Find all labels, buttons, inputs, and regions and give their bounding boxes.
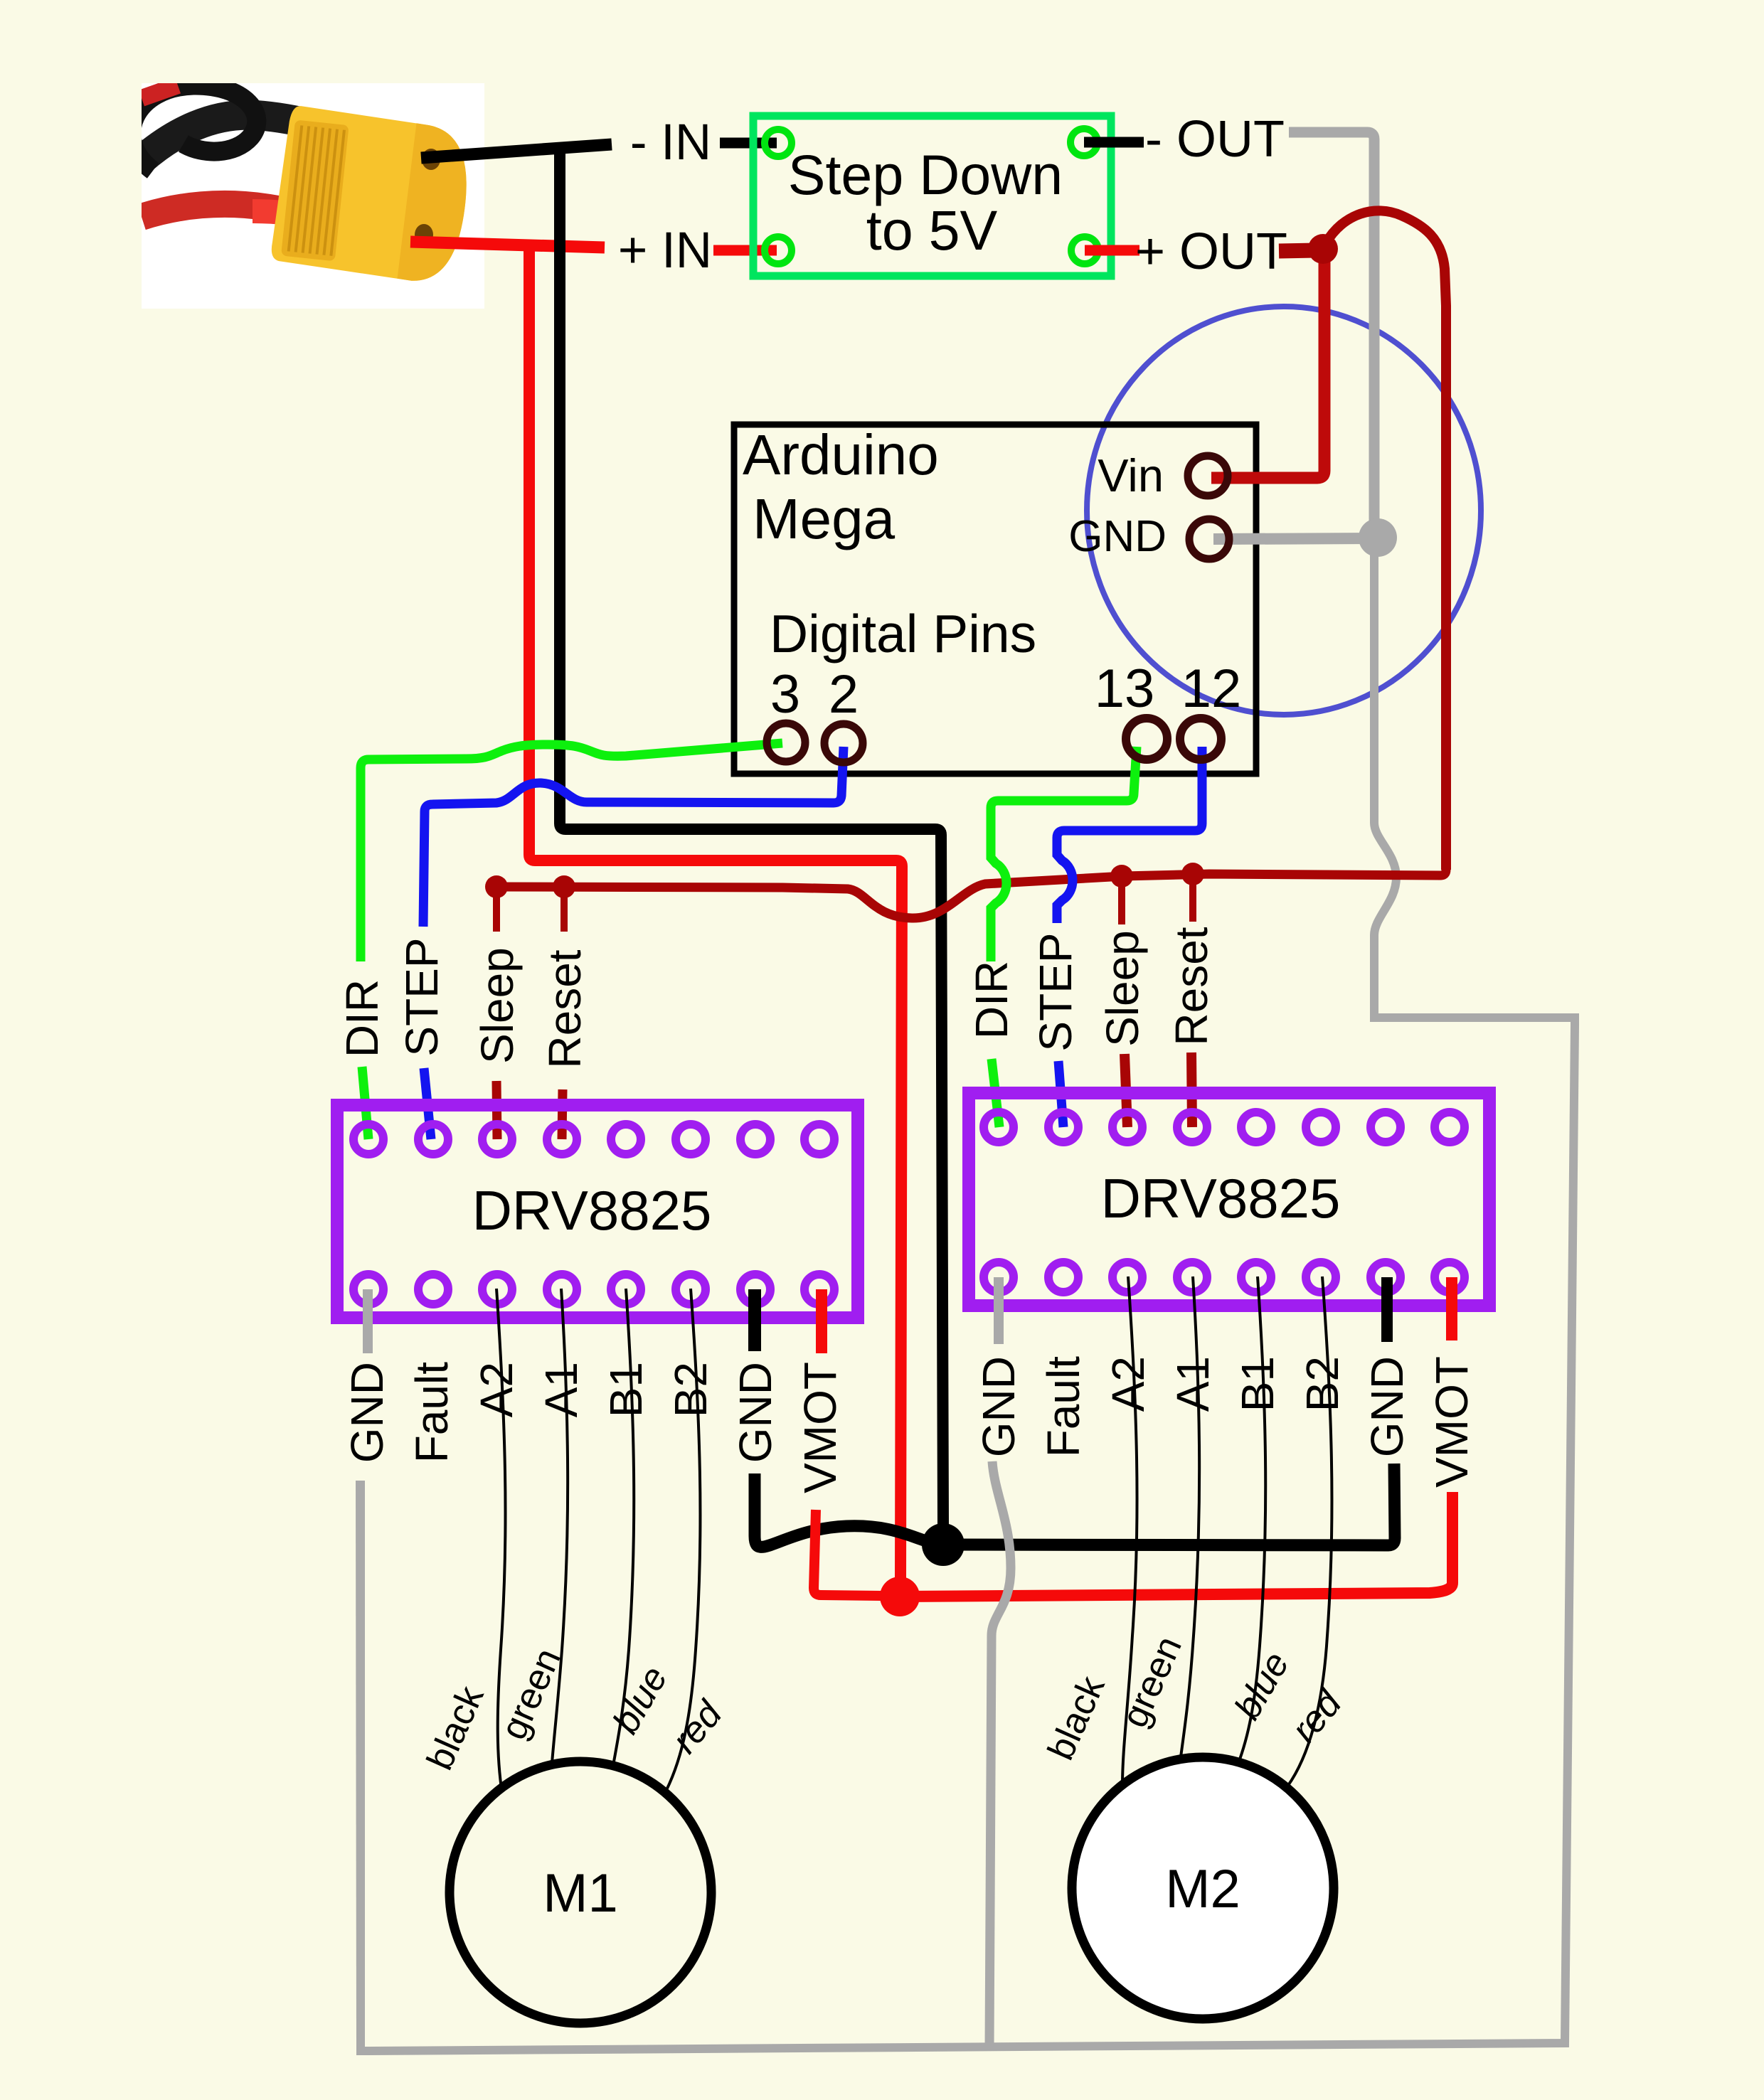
svg-text:GND: GND [730, 1362, 781, 1463]
svg-text:Step Down: Step Down [788, 143, 1063, 206]
svg-text:A1: A1 [536, 1362, 587, 1417]
svg-text:Arduino: Arduino [743, 423, 939, 486]
svg-text:VMOT: VMOT [1426, 1356, 1477, 1488]
dark red left reset branch [560, 887, 568, 932]
black bus node to right GND [943, 1464, 1395, 1545]
gray GND stub left board [363, 1289, 373, 1353]
motor wire A2 to M2 [1122, 1276, 1137, 1785]
blue STEP stub left [424, 1068, 431, 1139]
svg-text:blue: blue [605, 1659, 676, 1740]
svg-text:B2: B2 [665, 1362, 716, 1417]
svg-text:A1: A1 [1167, 1356, 1218, 1412]
wire -OUT stub [1084, 137, 1144, 148]
red bus node to right VMOT [900, 1492, 1452, 1597]
step-down pin -IN [765, 129, 792, 156]
dark red left sleep branch [493, 887, 500, 932]
svg-text:+ OUT: + OUT [1135, 223, 1287, 280]
svg-text:Sleep: Sleep [472, 947, 523, 1064]
motor wire B2 to M1 [666, 1289, 700, 1790]
gray GND wire from -OUT down right frame [1289, 132, 1374, 526]
svg-text:Reset: Reset [1166, 927, 1217, 1045]
red power bus +IN down and across [529, 245, 902, 1579]
right board top pin row [984, 1112, 1465, 1142]
blue wire D2 to left STEP [423, 747, 844, 927]
red VMOT wire left to node [814, 1510, 882, 1596]
svg-text:GND: GND [1361, 1356, 1413, 1457]
left board top pin row [354, 1124, 834, 1154]
junction node +OUT [1308, 234, 1338, 264]
gray GND wire left below label [360, 1481, 361, 2042]
junction node right sleep [1110, 865, 1133, 888]
junction node left reset [553, 875, 575, 898]
dark red right reset branch [1189, 874, 1196, 922]
motor wire A2 to M1 [496, 1289, 506, 1793]
svg-text:B1: B1 [600, 1362, 652, 1417]
svg-text:Fault: Fault [406, 1362, 457, 1464]
svg-text:A2: A2 [1102, 1356, 1154, 1412]
motor M1 [450, 1761, 711, 2023]
dark red sleep/reset rail [496, 870, 1446, 918]
motor wire A1 to M2 [1180, 1276, 1199, 1762]
junction node red [880, 1577, 920, 1616]
blue highlight circle around Vin/GND [1087, 307, 1481, 715]
svg-text:B1: B1 [1232, 1356, 1283, 1412]
svg-text:B2: B2 [1297, 1356, 1348, 1412]
junction node right reset [1181, 863, 1204, 885]
svg-text:green: green [1114, 1631, 1190, 1734]
left board bottom pin row [354, 1274, 834, 1304]
svg-text:Sleep: Sleep [1097, 930, 1148, 1047]
Arduino pin 12 [1180, 718, 1221, 759]
svg-text:M1: M1 [543, 1863, 618, 1924]
Arduino pin 3 [767, 723, 805, 762]
svg-text:12: 12 [1181, 659, 1242, 719]
dark red +OUT arc over to right rail [1326, 210, 1446, 870]
gray GND wire right below label [989, 1461, 1011, 2048]
svg-text:Fault: Fault [1038, 1356, 1089, 1458]
green wire D3 to left DIR [361, 743, 782, 961]
right board bottom pin row [984, 1262, 1465, 1292]
svg-text:13: 13 [1095, 659, 1155, 719]
svg-text:- IN: - IN [630, 114, 711, 171]
green DIR stub right [992, 1059, 999, 1127]
svg-text:to 5V: to 5V [866, 198, 998, 262]
step-down pin -OUT [1070, 129, 1098, 156]
svg-text:STEP: STEP [1030, 932, 1081, 1051]
svg-text:- OUT: - OUT [1145, 111, 1285, 168]
red VMOT stub right board [1446, 1277, 1457, 1341]
junction node black [922, 1523, 965, 1566]
green DIR stub left [362, 1067, 368, 1139]
Arduino Mega board [734, 423, 1256, 774]
gray Arduino GND stub to node [1213, 538, 1378, 539]
svg-text:Vin: Vin [1098, 449, 1164, 501]
svg-text:blue: blue [1227, 1645, 1297, 1726]
svg-text:black: black [1040, 1670, 1113, 1766]
dark red +OUT to Vin wire [1279, 250, 1316, 251]
svg-text:DRV8825: DRV8825 [1101, 1167, 1341, 1230]
red VMOT stub left board [816, 1289, 827, 1353]
wire +OUT stub [1085, 245, 1139, 256]
svg-text:DIR: DIR [336, 979, 388, 1057]
label Step Down to 5V [788, 143, 1063, 262]
junction node left sleep [485, 875, 508, 898]
svg-text:2: 2 [829, 664, 859, 725]
Arduino pin Vin [1188, 456, 1228, 496]
svg-text:GND: GND [973, 1356, 1024, 1457]
Arduino pin 13 [1126, 718, 1167, 759]
svg-text:VMOT: VMOT [795, 1362, 846, 1493]
blue wire D12 to right STEP [1057, 747, 1202, 923]
svg-text:Reset: Reset [539, 949, 590, 1068]
black GND stub left board [748, 1289, 761, 1351]
black power bus -IN down and across [560, 146, 943, 1525]
DRV8825 driver board right [969, 1093, 1489, 1306]
svg-text:STEP: STEP [396, 937, 447, 1056]
svg-text:+ IN: + IN [618, 223, 712, 279]
svg-text:GND: GND [1068, 512, 1167, 561]
svg-text:DRV8825: DRV8825 [472, 1179, 712, 1242]
svg-text:red: red [664, 1693, 731, 1761]
step-down pin +IN [765, 237, 792, 264]
svg-text:DIR: DIR [966, 961, 1017, 1039]
svg-text:A2: A2 [471, 1362, 522, 1417]
svg-text:red: red [1284, 1682, 1351, 1750]
gray GND stub right board [994, 1277, 1004, 1344]
wire battery negative to -IN [421, 143, 777, 158]
step-down module board [753, 116, 1111, 276]
dark red right sleep branch [1118, 876, 1125, 924]
Arduino pin 2 [824, 724, 863, 762]
blue STEP stub right [1058, 1061, 1063, 1127]
green wire D13 to right DIR [991, 747, 1137, 961]
svg-text:GND: GND [341, 1362, 393, 1463]
black GND stub right board [1381, 1277, 1393, 1342]
black GND wire left to node [755, 1473, 943, 1547]
motor wire B1 to M2 [1238, 1276, 1265, 1765]
motor wire A1 to M1 [551, 1289, 568, 1772]
svg-text:Mega: Mega [753, 487, 896, 550]
motor wire B2 to M2 [1287, 1276, 1332, 1786]
DRV8825 driver board left [337, 1105, 858, 1318]
svg-text:M2: M2 [1165, 1859, 1240, 1919]
wire battery positive to +IN [410, 242, 777, 250]
svg-text:3: 3 [770, 664, 800, 725]
svg-text:Digital Pins: Digital Pins [770, 604, 1036, 663]
motor M2 [1072, 1757, 1334, 2019]
Arduino pin GND [1189, 519, 1229, 559]
XT60 battery connector photo [132, 83, 484, 309]
gray junction node [1359, 518, 1397, 557]
motor wire B1 to M1 [612, 1289, 634, 1769]
step-down pin +OUT [1071, 237, 1098, 264]
svg-text:black: black [419, 1680, 492, 1776]
